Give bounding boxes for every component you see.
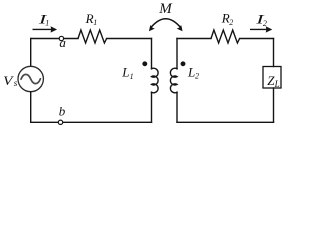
wire top segment (R2 to right corner) — [240, 38, 274, 40]
svg-text:1: 1 — [93, 18, 97, 27]
inductor L1 branch bottom wire — [151, 92, 153, 122]
resistor R2 — [211, 30, 240, 43]
svg-text:2: 2 — [195, 71, 199, 80]
wire right vertical lower (ZL to bottom corner) — [273, 88, 275, 122]
M arc right arrowhead — [177, 25, 183, 31]
inductor L2 branch bottom wire — [176, 92, 178, 122]
svg-text:a: a — [59, 35, 66, 50]
wire bottom-right segment (L2 bottom to right corner) — [177, 121, 274, 123]
source Vs circle — [18, 66, 43, 91]
wire left vertical lower (source to bottom corner) — [30, 92, 32, 123]
node a circle — [59, 36, 63, 40]
wire bottom-left segment (corner to L1 branch bottom) — [31, 121, 152, 123]
inductor L1 coil — [152, 68, 159, 93]
wire left vertical upper (corner to source) — [30, 39, 32, 67]
current I2 arrow — [250, 26, 272, 32]
svg-text:L: L — [187, 65, 195, 80]
M arc left arrowhead — [149, 25, 155, 31]
load ZL box — [263, 67, 281, 89]
inductor L1 branch top wire — [151, 39, 153, 69]
source Vs sine wave — [21, 74, 40, 83]
wire right vertical upper (corner to load ZL) — [273, 39, 275, 67]
svg-text:2: 2 — [263, 19, 267, 28]
inductor L2 coil — [170, 68, 177, 93]
L2 polarity dot — [181, 61, 186, 66]
wire top-left segment (corner to resistor R1) — [31, 38, 78, 40]
svg-text:b: b — [59, 104, 66, 119]
wire top-right segment (L2 corner to resistor R2) — [177, 38, 211, 40]
mutual inductance M arc — [151, 19, 182, 28]
node b circle — [58, 120, 62, 124]
svg-text:s: s — [14, 78, 18, 88]
svg-text:1: 1 — [130, 72, 134, 81]
wire top segment (R1 to L1 branch corner) — [107, 38, 152, 40]
current I1 arrow — [33, 26, 58, 32]
svg-text:L: L — [121, 65, 129, 80]
svg-text:L: L — [274, 79, 280, 89]
svg-text:1: 1 — [45, 19, 49, 28]
inductor L2 branch top wire — [176, 39, 178, 69]
resistor R1 — [78, 30, 107, 43]
svg-text:M: M — [158, 1, 173, 17]
svg-text:2: 2 — [229, 18, 233, 27]
svg-text:R: R — [85, 11, 94, 26]
L1 polarity dot — [142, 61, 147, 66]
